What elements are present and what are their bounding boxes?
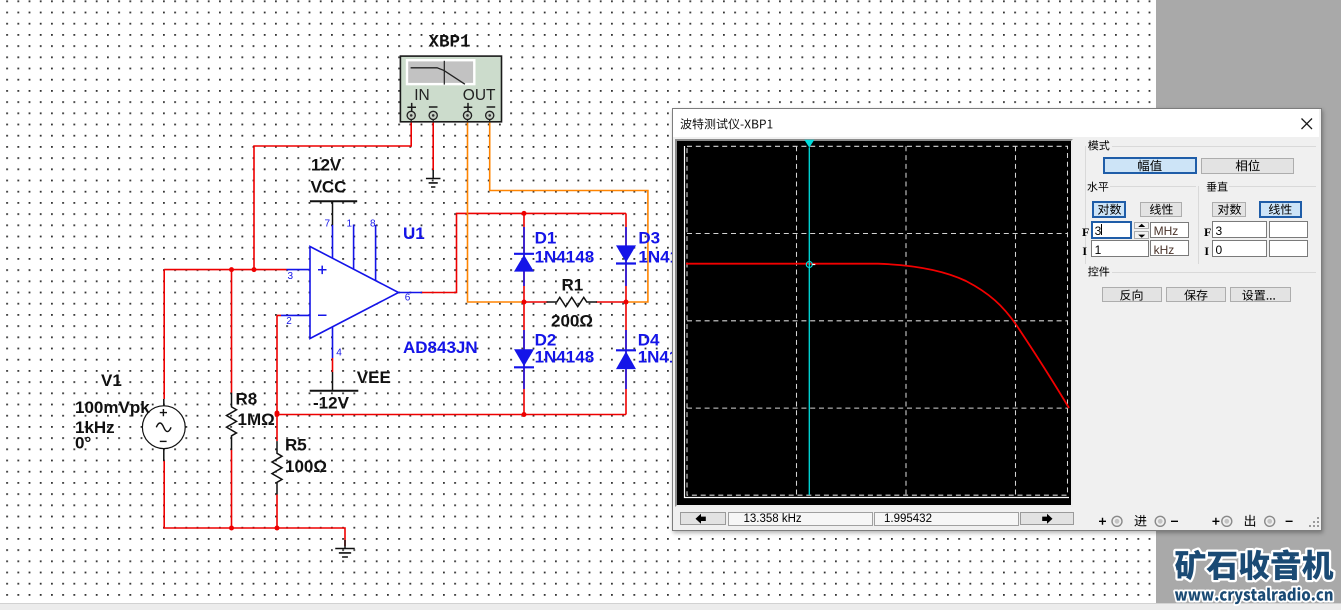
svg-text:1N4148: 1N4148 xyxy=(535,247,595,266)
svg-text:AD843JN: AD843JN xyxy=(403,338,478,357)
svg-text:2: 2 xyxy=(286,316,292,327)
svg-text:V1: V1 xyxy=(101,371,122,390)
svg-text:R8: R8 xyxy=(236,390,258,409)
svg-text:6: 6 xyxy=(405,292,411,303)
svg-text:7: 7 xyxy=(325,218,331,229)
svg-text:100Ω: 100Ω xyxy=(285,457,327,476)
svg-text:100mVpk: 100mVpk xyxy=(75,398,150,417)
svg-text:1MΩ: 1MΩ xyxy=(238,410,275,429)
svg-text:0°: 0° xyxy=(75,433,91,452)
svg-text:3: 3 xyxy=(288,271,294,282)
svg-text:200Ω: 200Ω xyxy=(551,312,593,331)
svg-text:8: 8 xyxy=(370,218,376,229)
svg-text:U1: U1 xyxy=(403,224,425,243)
svg-text:OUT: OUT xyxy=(463,87,496,104)
svg-text:XBP1: XBP1 xyxy=(429,33,471,53)
svg-text:D1: D1 xyxy=(535,229,557,248)
svg-text:VCC: VCC xyxy=(311,177,347,196)
svg-text:1: 1 xyxy=(347,218,353,229)
svg-text:1N4148: 1N4148 xyxy=(535,348,595,367)
svg-text:IN: IN xyxy=(414,87,430,104)
svg-text:R5: R5 xyxy=(285,436,307,455)
svg-text:-12V: -12V xyxy=(313,394,350,413)
svg-text:VEE: VEE xyxy=(357,368,391,387)
svg-text:R1: R1 xyxy=(562,276,584,295)
svg-text:12V: 12V xyxy=(311,156,342,175)
svg-text:D3: D3 xyxy=(638,229,660,248)
svg-text:4: 4 xyxy=(336,348,342,359)
